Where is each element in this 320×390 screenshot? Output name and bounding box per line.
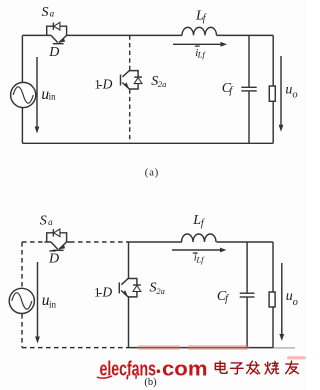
svg-text:D: D [102,77,113,92]
svg-text:Lf: Lf [197,50,207,60]
svg-text:2a: 2a [156,286,165,296]
svg-text:Lf: Lf [195,254,205,264]
svg-text:2a: 2a [158,79,167,89]
svg-text:f: f [229,86,233,97]
svg-text:f: f [225,294,229,305]
svg-text:a: a [50,9,55,19]
svg-text:S: S [40,214,47,229]
svg-text:in: in [49,92,57,102]
svg-text:com: com [162,357,208,380]
svg-text:(a): (a) [145,168,159,179]
svg-text:u: u [285,82,292,97]
svg-text:D: D [48,45,59,60]
svg-text:D: D [101,285,112,300]
svg-text:D: D [48,251,59,266]
svg-text:o: o [292,90,297,101]
svg-text:f: f [203,13,207,24]
svg-text:a: a [48,217,53,227]
svg-text:S: S [42,5,49,20]
svg-text:f: f [201,218,205,229]
svg-text:in: in [49,300,57,310]
svg-text:o: o [293,297,298,308]
